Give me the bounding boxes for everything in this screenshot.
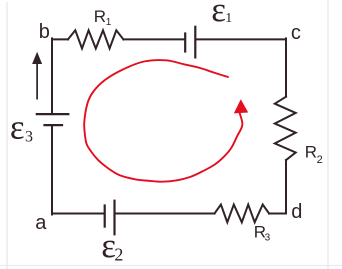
svg-text:1: 1 <box>106 17 112 28</box>
svg-text:3: 3 <box>265 232 271 243</box>
svg-text:3: 3 <box>25 128 33 145</box>
battery E3 short plate (bottom) <box>43 124 63 126</box>
svg-text:ε: ε <box>10 107 25 146</box>
faint left border line <box>6 2 8 269</box>
faint right border line <box>327 0 329 269</box>
svg-text:c: c <box>291 22 301 44</box>
svg-text:R: R <box>94 7 106 26</box>
resistor R2 <box>275 97 296 160</box>
battery E2 long plate (right) <box>113 200 115 236</box>
svg-text:d: d <box>291 201 302 223</box>
battery E1 long plate (right) <box>194 26 196 59</box>
battery E2 short plate (left) <box>104 204 106 227</box>
current direction arrow shaft (black, left side) <box>36 62 38 100</box>
faint bottom border line <box>0 265 342 267</box>
current direction arrow head <box>32 52 42 64</box>
wire battery E3 down to node a corner <box>51 125 53 214</box>
wire node d corner to resistor R3 <box>269 213 286 215</box>
wire resistor R3 to battery E2 <box>115 213 214 215</box>
wire node b corner down to battery E3 <box>51 38 53 114</box>
wire node c down to resistor R2 <box>285 38 287 96</box>
svg-text:2: 2 <box>114 244 123 264</box>
resistor R3 <box>215 205 270 223</box>
wire battery E1 to node c corner <box>196 38 286 40</box>
wire resistor R2 down to node d corner <box>285 160 287 213</box>
red loop arrow head <box>234 99 248 113</box>
svg-text:R: R <box>305 143 317 162</box>
svg-text:ε: ε <box>211 0 226 29</box>
wire node b corner to resistor R1 <box>52 38 68 40</box>
svg-text:b: b <box>39 21 50 43</box>
svg-text:a: a <box>35 212 47 234</box>
red loop arrow curve (counterclockwise) <box>84 60 242 182</box>
battery E1 short plate (left) <box>184 32 186 52</box>
resistor R1 <box>68 30 123 48</box>
svg-text:2: 2 <box>317 154 323 166</box>
svg-text:1: 1 <box>225 11 232 26</box>
battery E3 long plate (top) <box>36 113 70 115</box>
wire battery E2 to node a corner <box>52 213 104 215</box>
wire resistor R1 to battery E1 <box>123 38 184 40</box>
